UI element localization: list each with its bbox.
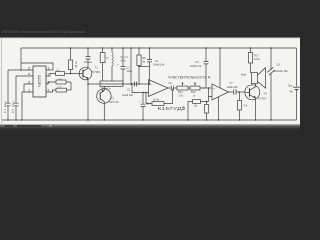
svg-text:220мк: 220мк	[84, 60, 93, 64]
wire: feedback join	[70, 82, 72, 90]
svg-text:С2 10н: С2 10н	[11, 101, 15, 113]
capacitor C5 10uF input	[149, 48, 151, 84]
svg-text:5: 5	[48, 89, 50, 93]
wire	[188, 87, 190, 89]
pin 8 wire	[46, 82, 56, 84]
svg-text:10мФ 16в: 10мФ 16в	[190, 65, 202, 68]
transistor VT2 IRF740	[97, 89, 111, 103]
DA1.2 feedback wire	[209, 88, 213, 97]
svg-text:С1 10н: С1 10н	[3, 101, 7, 113]
resistor R5 vertical	[102, 48, 104, 53]
pin 1 wire to ground	[22, 92, 33, 120]
svg-text:5,1к: 5,1к	[58, 86, 62, 88]
svg-text:10мк: 10мк	[127, 70, 133, 73]
wire: VT3 emitter to ground	[255, 98, 257, 120]
pin 6 wire	[24, 84, 33, 92]
coil L1 box	[100, 81, 123, 86]
pin 4 wire	[16, 75, 33, 77]
wire: DA1.2 output	[229, 91, 234, 93]
pin 5 wire	[46, 91, 50, 93]
battery GB1 9V	[293, 86, 300, 88]
wire: tank to DA1.1 inverting input	[132, 84, 149, 93]
wire: rail to DA1.2 top	[219, 48, 221, 88]
svg-text:3: 3	[48, 67, 50, 71]
svg-text:+: +	[213, 87, 215, 91]
svg-text:R4 1к: R4 1к	[74, 61, 78, 68]
IC U1 NE555 body	[33, 66, 46, 97]
potentiometer R9	[190, 86, 200, 90]
svg-text:1ком: 1ком	[254, 58, 260, 61]
pin numbers left	[28, 67, 30, 93]
svg-text:1мкФ 16в: 1мкФ 16в	[227, 86, 239, 89]
speaker BA1	[252, 73, 258, 84]
capacitor C11 series on tank row	[134, 82, 136, 87]
svg-text:КТ817: КТ817	[259, 97, 267, 101]
capacitor C8 10uF from rail	[205, 48, 207, 88]
svg-text:8: 8	[48, 81, 50, 85]
capacitor C7 series	[171, 86, 173, 91]
svg-text:2кГц: 2кГц	[121, 60, 127, 63]
svg-text:К157УД2: К157УД2	[158, 106, 187, 111]
pin 2 wire	[8, 69, 33, 71]
capacitor C1 plates	[6, 103, 11, 106]
svg-text:Т2: Т2	[111, 96, 115, 100]
svg-text:2: 2	[28, 67, 30, 71]
svg-text:-: -	[214, 96, 215, 100]
svg-text:+: +	[117, 63, 119, 67]
battery label	[289, 84, 294, 93]
capacitor C2 branch wire	[15, 76, 17, 120]
svg-text:4: 4	[28, 73, 30, 77]
VT3 label	[259, 92, 268, 101]
svg-text:9В: 9В	[290, 91, 293, 94]
paper left edge	[1, 38, 3, 125]
schematic paper background	[0, 38, 300, 126]
capacitor C1 branch wire	[7, 70, 9, 120]
potentiometer R8	[177, 86, 188, 90]
resistor R10 to ground	[207, 97, 209, 105]
wire: VT3 collector to speaker	[255, 84, 257, 87]
capacitor C6 1uF vertical	[142, 93, 144, 121]
wire: DA1.2 bottom branch to ground	[218, 97, 220, 120]
resistor R11 horizontal	[188, 102, 209, 121]
capacitor C2 plates	[14, 103, 19, 106]
pin 7 wire	[46, 74, 56, 77]
wire: rail corner to 555	[20, 48, 22, 70]
svg-text:-: -	[151, 92, 152, 96]
resistor R6 vertical	[138, 48, 140, 55]
wire: +V top rail	[21, 47, 297, 49]
wire to DA1.2	[200, 87, 212, 89]
svg-text:10,4к: 10,4к	[153, 99, 160, 102]
resistor R13 speaker feed	[250, 48, 252, 53]
capacitor C9 1uF series	[234, 89, 236, 94]
player control marks	[5, 125, 41, 127]
wire: R6 to C4 link	[139, 66, 150, 68]
capacitor C10 2200uF across supply	[270, 48, 272, 120]
svg-text:КТ361: КТ361	[93, 70, 101, 74]
transistor VT1 KT361	[79, 67, 92, 80]
DA1.1 feedback resistor R7	[146, 89, 173, 104]
svg-text:8ом: 8ом	[241, 73, 246, 77]
resistor R3 (pin5 row)	[50, 90, 56, 92]
wire: rail drop x131	[130, 48, 132, 84]
svg-text:10мФ 16в: 10мФ 16в	[153, 64, 165, 67]
svg-text:NE555: NE555	[36, 74, 41, 87]
svg-text:2200мкФ 16в: 2200мкФ 16в	[273, 70, 289, 73]
svg-text:IRF740: IRF740	[110, 100, 119, 104]
svg-text:Т3: Т3	[264, 92, 268, 96]
wire: ground bottom rail	[2, 119, 297, 121]
svg-text:ЧУВСТВИТЕЛЬНОСТЬ R.: ЧУВСТВИТЕЛЬНОСТЬ R.	[168, 76, 212, 80]
capacitor C4 100uF	[122, 48, 124, 81]
svg-text:+: +	[150, 82, 152, 86]
capacitor C3 220uF on collector	[87, 48, 89, 68]
svg-text:+: +	[143, 59, 145, 63]
resistor R12 base to ground	[239, 92, 241, 101]
wire: VT1 emitter to ground	[87, 79, 89, 120]
transistor VT3 KT817	[245, 85, 260, 100]
VT2 label	[110, 96, 119, 104]
VT1 label	[93, 66, 101, 74]
svg-text:+: +	[139, 100, 141, 104]
op-amp DA1.1	[149, 80, 169, 97]
pin numbers right	[48, 67, 50, 93]
svg-text:1мкФ 16в: 1мкФ 16в	[122, 94, 134, 97]
svg-text:7: 7	[48, 73, 50, 77]
pin 3 wire	[46, 69, 53, 71]
inductor L2 loops	[111, 48, 113, 81]
wire: DA1.1 output	[168, 87, 171, 89]
VT2 wires	[103, 86, 105, 120]
wire: right battery branch	[296, 48, 298, 120]
svg-text:6: 6	[28, 81, 30, 85]
wire: tank row	[88, 83, 149, 85]
op-amp DA1.2	[212, 84, 229, 100]
svg-text:WISHMASTER. схема металлоискат: WISHMASTER. схема металлоискателя NE555 …	[2, 30, 85, 34]
svg-text:1: 1	[28, 89, 30, 93]
wire: output loop top	[21, 63, 53, 70]
resistor R4 vertical from rail	[70, 48, 72, 60]
